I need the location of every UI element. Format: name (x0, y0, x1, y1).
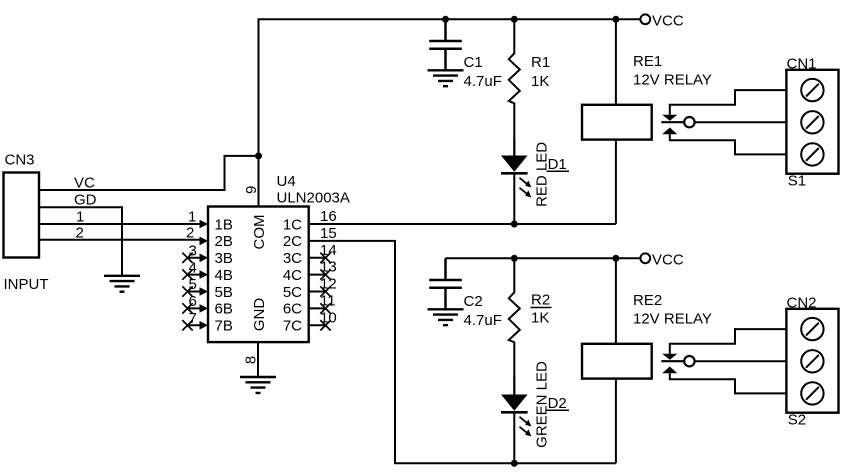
svg-text:VC: VC (74, 175, 95, 192)
svg-text:4: 4 (189, 259, 197, 276)
svg-text:S1: S1 (788, 173, 806, 190)
svg-text:1K: 1K (531, 310, 549, 327)
svg-text:5B: 5B (215, 284, 233, 301)
svg-text:R2: R2 (531, 292, 550, 309)
svg-text:5: 5 (189, 276, 197, 293)
svg-text:2: 2 (76, 225, 84, 242)
svg-text:1C: 1C (283, 216, 302, 233)
svg-text:4.7uF: 4.7uF (464, 312, 502, 329)
svg-text:13: 13 (320, 259, 337, 276)
svg-text:15: 15 (320, 225, 337, 242)
svg-text:1K: 1K (531, 73, 549, 90)
svg-text:VCC: VCC (652, 13, 684, 30)
svg-text:3B: 3B (215, 250, 233, 267)
svg-text:CN1: CN1 (787, 56, 817, 73)
svg-text:COM: COM (251, 215, 268, 250)
svg-text:5C: 5C (283, 284, 302, 301)
svg-text:RE2: RE2 (633, 292, 662, 309)
svg-text:14: 14 (320, 242, 337, 259)
svg-text:2: 2 (186, 224, 194, 241)
svg-text:D2: D2 (548, 395, 567, 412)
svg-text:R1: R1 (531, 54, 550, 71)
svg-text:6: 6 (189, 293, 197, 310)
svg-text:VCC: VCC (652, 252, 684, 269)
svg-text:INPUT: INPUT (4, 276, 49, 293)
svg-text:4.7uF: 4.7uF (464, 73, 502, 90)
svg-text:10: 10 (320, 309, 337, 326)
svg-text:8: 8 (243, 356, 260, 364)
svg-text:2C: 2C (283, 233, 302, 250)
svg-text:2B: 2B (215, 233, 233, 250)
svg-text:1B: 1B (215, 216, 233, 233)
svg-text:6B: 6B (215, 301, 233, 318)
svg-text:RE1: RE1 (633, 53, 662, 70)
svg-text:4B: 4B (215, 267, 233, 284)
svg-text:12: 12 (320, 276, 337, 293)
svg-text:3C: 3C (283, 250, 302, 267)
svg-text:6C: 6C (283, 301, 302, 318)
svg-text:7B: 7B (215, 318, 233, 335)
svg-text:1: 1 (76, 209, 84, 226)
svg-text:11: 11 (320, 292, 336, 309)
svg-text:4C: 4C (283, 267, 302, 284)
svg-text:C1: C1 (464, 54, 483, 71)
svg-text:3: 3 (189, 243, 197, 260)
svg-text:U4: U4 (277, 173, 296, 190)
svg-text:GD: GD (74, 192, 97, 209)
svg-text:16: 16 (320, 208, 337, 225)
svg-text:1: 1 (188, 209, 196, 226)
svg-text:GND: GND (251, 298, 268, 332)
svg-text:9: 9 (243, 186, 260, 194)
svg-text:D1: D1 (548, 156, 567, 173)
svg-text:RED LED: RED LED (534, 142, 551, 207)
svg-text:12V RELAY: 12V RELAY (633, 72, 712, 89)
svg-text:C2: C2 (464, 293, 483, 310)
svg-text:ULN2003A: ULN2003A (277, 189, 350, 206)
svg-text:7C: 7C (283, 318, 302, 335)
svg-text:CN3: CN3 (5, 152, 35, 169)
svg-text:12V RELAY: 12V RELAY (633, 311, 712, 328)
svg-text:7: 7 (189, 310, 197, 327)
svg-text:S2: S2 (788, 412, 806, 429)
svg-text:CN2: CN2 (787, 295, 817, 312)
